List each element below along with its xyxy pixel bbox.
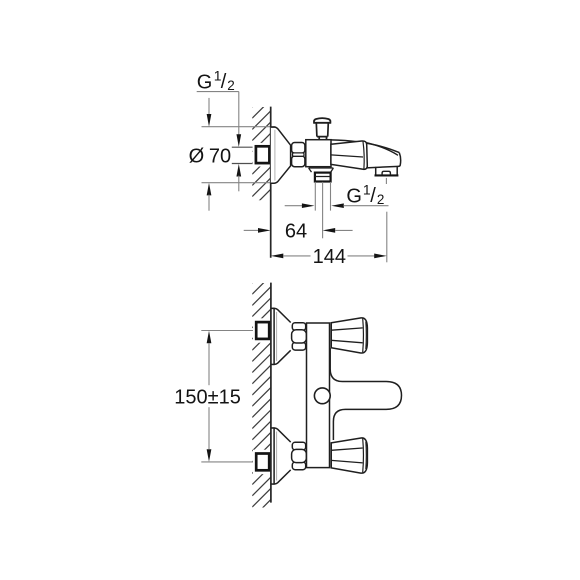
64 left arrow at wall [258, 228, 271, 233]
G1/2 reference underline (top) [197, 91, 239, 93]
handle flute lines (lower) [331, 448, 363, 463]
handle (top view) [331, 141, 367, 169]
svg-text:/: / [221, 71, 227, 93]
Ø70 arrow down [207, 114, 212, 127]
handle base edge (lower) [330, 443, 332, 468]
aerator housing sides [376, 167, 398, 175]
handle rim line (upper) [362, 318, 365, 352]
handle flute lines (upper) [331, 328, 363, 343]
hex nut (upper) [292, 323, 305, 331]
Ø70 upper arrow shaft [208, 98, 210, 115]
Ø70 arrow up [207, 183, 212, 196]
handle rim line (lower) [362, 438, 365, 472]
handle rim line 2 (upper) [365, 322, 368, 350]
handle rim line 2 (lower) [365, 442, 368, 470]
aerator insert dome [382, 171, 390, 175]
valve body (top view) [306, 140, 331, 167]
svg-text:150±15: 150±15 [174, 386, 241, 408]
escutcheon cone (top view) [271, 127, 291, 183]
144 dim line right part [348, 255, 375, 257]
spout tip and underside [366, 153, 400, 168]
supply pipe top line [232, 146, 255, 148]
G1/2 leader tail below pipe [238, 176, 240, 192]
handle base edge (upper) [330, 323, 332, 348]
svg-text:G: G [197, 72, 213, 94]
shower outlet block [315, 173, 331, 182]
in-wall union square (top view) [256, 146, 270, 163]
150 dim line lower [208, 407, 210, 449]
wall edge line (top view) [270, 107, 272, 258]
spout near-side silhouette line [363, 142, 399, 156]
Ø70 lower arrow shaft [208, 195, 210, 211]
G1/2 lower left arrow [302, 203, 315, 208]
G1/2 lower reference underline [343, 205, 388, 207]
escutcheon flange inner line [274, 130, 276, 181]
escutcheon cone (lower) [271, 428, 291, 484]
144 dim line left part [283, 255, 310, 257]
144 left arrow [271, 254, 284, 259]
svg-text:Ø: Ø [189, 145, 205, 167]
G1/2 lower right arrow [331, 203, 344, 208]
150 dim bottom extension line [201, 461, 255, 463]
dim Ø70 extension lines [202, 126, 276, 128]
hex nut upper band (top view) [292, 143, 305, 154]
handle (upper, plan) [331, 318, 367, 353]
150 top arrow [207, 331, 212, 344]
white halo behind union square [253, 143, 273, 167]
diverter knob taper and stem [316, 123, 328, 140]
in-wall union square (upper) [256, 322, 269, 339]
handle mid flute line [331, 155, 363, 157]
valve body bar (plan) [307, 323, 330, 468]
svg-text:64: 64 [285, 221, 307, 243]
diverter knob (plan) [314, 388, 330, 404]
escutcheon inner line (upper) [276, 312, 278, 361]
150 dim line upper [208, 343, 210, 385]
hex nut (lower) [292, 442, 305, 450]
G1/2 leader vertical (top) [238, 92, 240, 141]
G1/2 arrow up at pipe bottom [236, 164, 241, 177]
svg-text:2: 2 [227, 78, 235, 93]
150 bottom arrow [207, 449, 212, 462]
64 right arrow at outlet centerline [323, 228, 336, 233]
tub spout (plan view) [330, 348, 401, 440]
outlet left extension line [314, 182, 316, 211]
64 dim right shaft [335, 229, 353, 231]
escutcheon inner line (lower) [276, 432, 278, 481]
svg-text:G: G [346, 186, 362, 208]
svg-text:2: 2 [377, 192, 385, 207]
handle end rim line [363, 142, 364, 169]
64 dim left shaft [244, 229, 259, 231]
spout top outline [331, 140, 399, 153]
handle (lower, plan) [331, 438, 367, 473]
hex nut lower band (top view) [292, 156, 305, 167]
svg-text:/: / [370, 185, 376, 207]
svg-text:70: 70 [209, 145, 231, 167]
outlet right extension line [330, 182, 332, 211]
supply pipe bottom line [232, 163, 255, 165]
144 right arrow [374, 254, 387, 259]
outlet block inner line [315, 176, 331, 178]
diverter knob cap [314, 118, 331, 123]
G1/2 lower dim left shaft [285, 205, 303, 207]
G1/2 arrow down at pipe top [236, 134, 241, 147]
white halo behind lower union square [253, 450, 273, 474]
wall edge line (bottom view) [270, 283, 272, 503]
144 right extension line [386, 212, 388, 263]
escutcheon cone (upper) [271, 308, 291, 364]
aerator bottom edge [375, 174, 399, 176]
under-body cover plate [309, 168, 334, 172]
outlet centerline [322, 182, 324, 238]
white halo behind upper union square [253, 318, 273, 342]
svg-text:144: 144 [313, 246, 346, 268]
150 dim top extension line [201, 330, 255, 332]
aerator leader line [385, 178, 387, 184]
hex nut middle band (top view) [293, 153, 305, 156]
in-wall union square (lower) [256, 454, 269, 471]
